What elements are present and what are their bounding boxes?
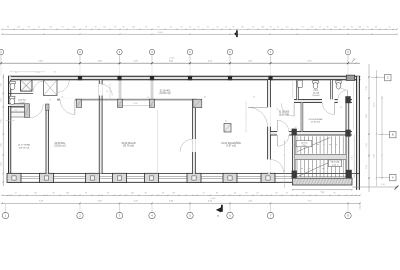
svg-text:126: 126 [132, 27, 135, 29]
svg-text:27: 27 [14, 193, 16, 195]
svg-text:235: 235 [66, 193, 69, 195]
svg-text:/ 28,0: / 28,0 [302, 145, 307, 147]
svg-text:90: 90 [54, 72, 56, 74]
svg-text:01.05.005: 01.05.005 [279, 112, 290, 114]
svg-text:0,90 m2: 0,90 m2 [313, 95, 320, 97]
svg-text:126: 126 [172, 193, 175, 195]
svg-text:C: C [387, 76, 389, 80]
svg-text:60: 60 [189, 27, 191, 29]
svg-text:60: 60 [256, 193, 258, 195]
svg-text:235: 235 [72, 27, 75, 29]
svg-text:RA 00.00A: RA 00.00A [331, 161, 340, 164]
svg-text:38: 38 [114, 27, 116, 29]
svg-text:4,40: 4,40 [373, 154, 375, 158]
svg-text:1,35: 1,35 [36, 72, 39, 74]
svg-text:1,5 m2: 1,5 m2 [19, 102, 25, 104]
svg-text:90: 90 [49, 100, 51, 102]
svg-text:24,40: 24,40 [158, 32, 163, 34]
svg-text:31: 31 [207, 27, 209, 29]
svg-text:2,95: 2,95 [366, 143, 368, 147]
svg-text:90: 90 [245, 193, 247, 195]
svg-text:90: 90 [252, 27, 254, 29]
svg-text:01.08 SKL: 01.08 SKL [55, 143, 67, 145]
svg-text:1,60: 1,60 [0, 83, 2, 87]
svg-text:75: 75 [145, 27, 147, 29]
svg-text:90: 90 [375, 27, 377, 29]
svg-text:90: 90 [94, 27, 96, 29]
svg-text:B: B [392, 133, 394, 137]
svg-text:(33,79 m2): (33,79 m2) [123, 146, 134, 148]
svg-text:90: 90 [326, 27, 328, 29]
svg-text:90: 90 [340, 107, 342, 109]
svg-text:9,10: 9,10 [381, 184, 385, 186]
svg-text:+0,00 m: +0,00 m [331, 164, 339, 166]
svg-text:19: 19 [319, 27, 321, 29]
svg-text:24,40: 24,40 [169, 58, 175, 60]
svg-text:102: 102 [131, 193, 134, 195]
svg-text:44: 44 [388, 27, 390, 29]
svg-text:19: 19 [85, 193, 87, 195]
svg-text:120: 120 [17, 27, 20, 29]
svg-text:90: 90 [15, 72, 17, 74]
svg-text:90: 90 [351, 27, 353, 29]
svg-text:58: 58 [269, 27, 271, 29]
svg-text:102: 102 [103, 27, 106, 29]
svg-text:27: 27 [38, 27, 40, 29]
svg-text:90: 90 [301, 27, 303, 29]
svg-text:75: 75 [202, 193, 204, 195]
svg-text:57: 57 [225, 27, 227, 29]
svg-text:90: 90 [61, 27, 63, 29]
svg-text:38: 38 [343, 27, 345, 29]
svg-text:1,0: 1,0 [292, 145, 294, 147]
svg-text:88: 88 [241, 27, 243, 29]
svg-text:90: 90 [216, 193, 218, 195]
svg-text:126: 126 [358, 27, 361, 29]
svg-text:10,20: 10,20 [373, 103, 375, 108]
svg-text:(5,76 m2): (5,76 m2) [311, 122, 320, 124]
svg-text:3,10: 3,10 [366, 165, 368, 169]
svg-text:27: 27 [277, 27, 279, 29]
svg-text:90: 90 [15, 110, 17, 112]
svg-text:5,60: 5,60 [366, 114, 368, 118]
svg-text:01.01 SKLADIŠČE: 01.01 SKLADIŠČE [221, 142, 241, 145]
svg-text:20: 20 [295, 127, 297, 129]
svg-text:A: A [392, 176, 394, 180]
svg-text:75: 75 [366, 27, 368, 29]
svg-text:(13,79 m2): (13,79 m2) [19, 147, 30, 149]
svg-text:(11,50 m2): (11,50 m2) [159, 93, 170, 95]
svg-text:30: 30 [204, 97, 206, 99]
svg-text:90: 90 [302, 193, 304, 195]
svg-text:2,5: 2,5 [253, 97, 255, 99]
svg-text:9,10: 9,10 [320, 191, 324, 193]
svg-text:01.07 SKRB: 01.07 SKRB [18, 144, 31, 146]
svg-text:19: 19 [85, 27, 87, 29]
svg-text:(33,81 m2): (33,81 m2) [54, 146, 65, 148]
svg-text:90: 90 [106, 91, 108, 93]
svg-text:38: 38 [144, 193, 146, 195]
svg-text:44: 44 [234, 193, 236, 195]
svg-text:3,80: 3,80 [0, 143, 2, 147]
svg-text:90: 90 [216, 27, 218, 29]
svg-text:110: 110 [285, 27, 288, 29]
svg-text:90: 90 [162, 193, 164, 195]
svg-text:(7,97 m2): (7,97 m2) [226, 146, 236, 148]
svg-text:90: 90 [107, 193, 109, 195]
svg-text:1,8: 1,8 [61, 97, 63, 99]
svg-text:90: 90 [180, 27, 182, 29]
svg-text:31: 31 [286, 193, 288, 195]
svg-text:(5,09 m2): (5,09 m2) [279, 115, 289, 117]
svg-text:90: 90 [157, 27, 159, 29]
svg-text:90: 90 [52, 193, 54, 195]
svg-text:01.06 SKLAD: 01.06 SKLAD [121, 142, 135, 145]
svg-text:2,95: 2,95 [352, 156, 354, 159]
svg-text:90: 90 [197, 27, 199, 29]
svg-text:60: 60 [225, 121, 227, 123]
svg-text:90: 90 [232, 27, 234, 29]
svg-text:3,10: 3,10 [366, 86, 368, 90]
svg-text:102: 102 [334, 27, 337, 29]
svg-text:1,85: 1,85 [0, 162, 2, 166]
svg-text:90: 90 [7, 27, 9, 29]
svg-text:90: 90 [275, 193, 277, 195]
svg-text:90: 90 [333, 193, 335, 195]
svg-text:1,35: 1,35 [0, 98, 2, 102]
svg-text:01.05-401: 01.05-401 [160, 90, 171, 92]
svg-text:110: 110 [49, 27, 52, 29]
svg-text:55: 55 [147, 97, 149, 99]
svg-text:24,40: 24,40 [210, 198, 216, 200]
svg-text:90: 90 [122, 27, 124, 29]
svg-text:58: 58 [27, 27, 29, 29]
svg-text:235: 235 [310, 27, 313, 29]
svg-text:01.03 HODNIK: 01.03 HODNIK [309, 119, 323, 121]
svg-text:44: 44 [170, 27, 172, 29]
svg-text:120: 120 [261, 27, 264, 29]
svg-text:110: 110 [34, 193, 37, 195]
svg-text:2,65: 2,65 [0, 119, 2, 123]
